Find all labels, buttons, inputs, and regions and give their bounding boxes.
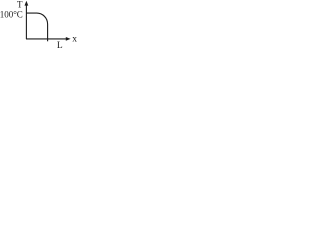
svg-text:L: L	[57, 41, 63, 51]
svg-text:100°C: 100°C	[0, 9, 23, 19]
y-axis	[25, 4, 27, 40]
temperature curve	[26, 13, 47, 39]
y-axis arrowhead	[25, 1, 29, 6]
svg-text:x: x	[72, 35, 77, 45]
x-axis arrowhead	[66, 37, 71, 41]
background	[0, 0, 79, 55]
svg-text:T: T	[17, 0, 23, 9]
x-axis	[26, 38, 68, 40]
tick at L below x-axis	[47, 39, 49, 41]
